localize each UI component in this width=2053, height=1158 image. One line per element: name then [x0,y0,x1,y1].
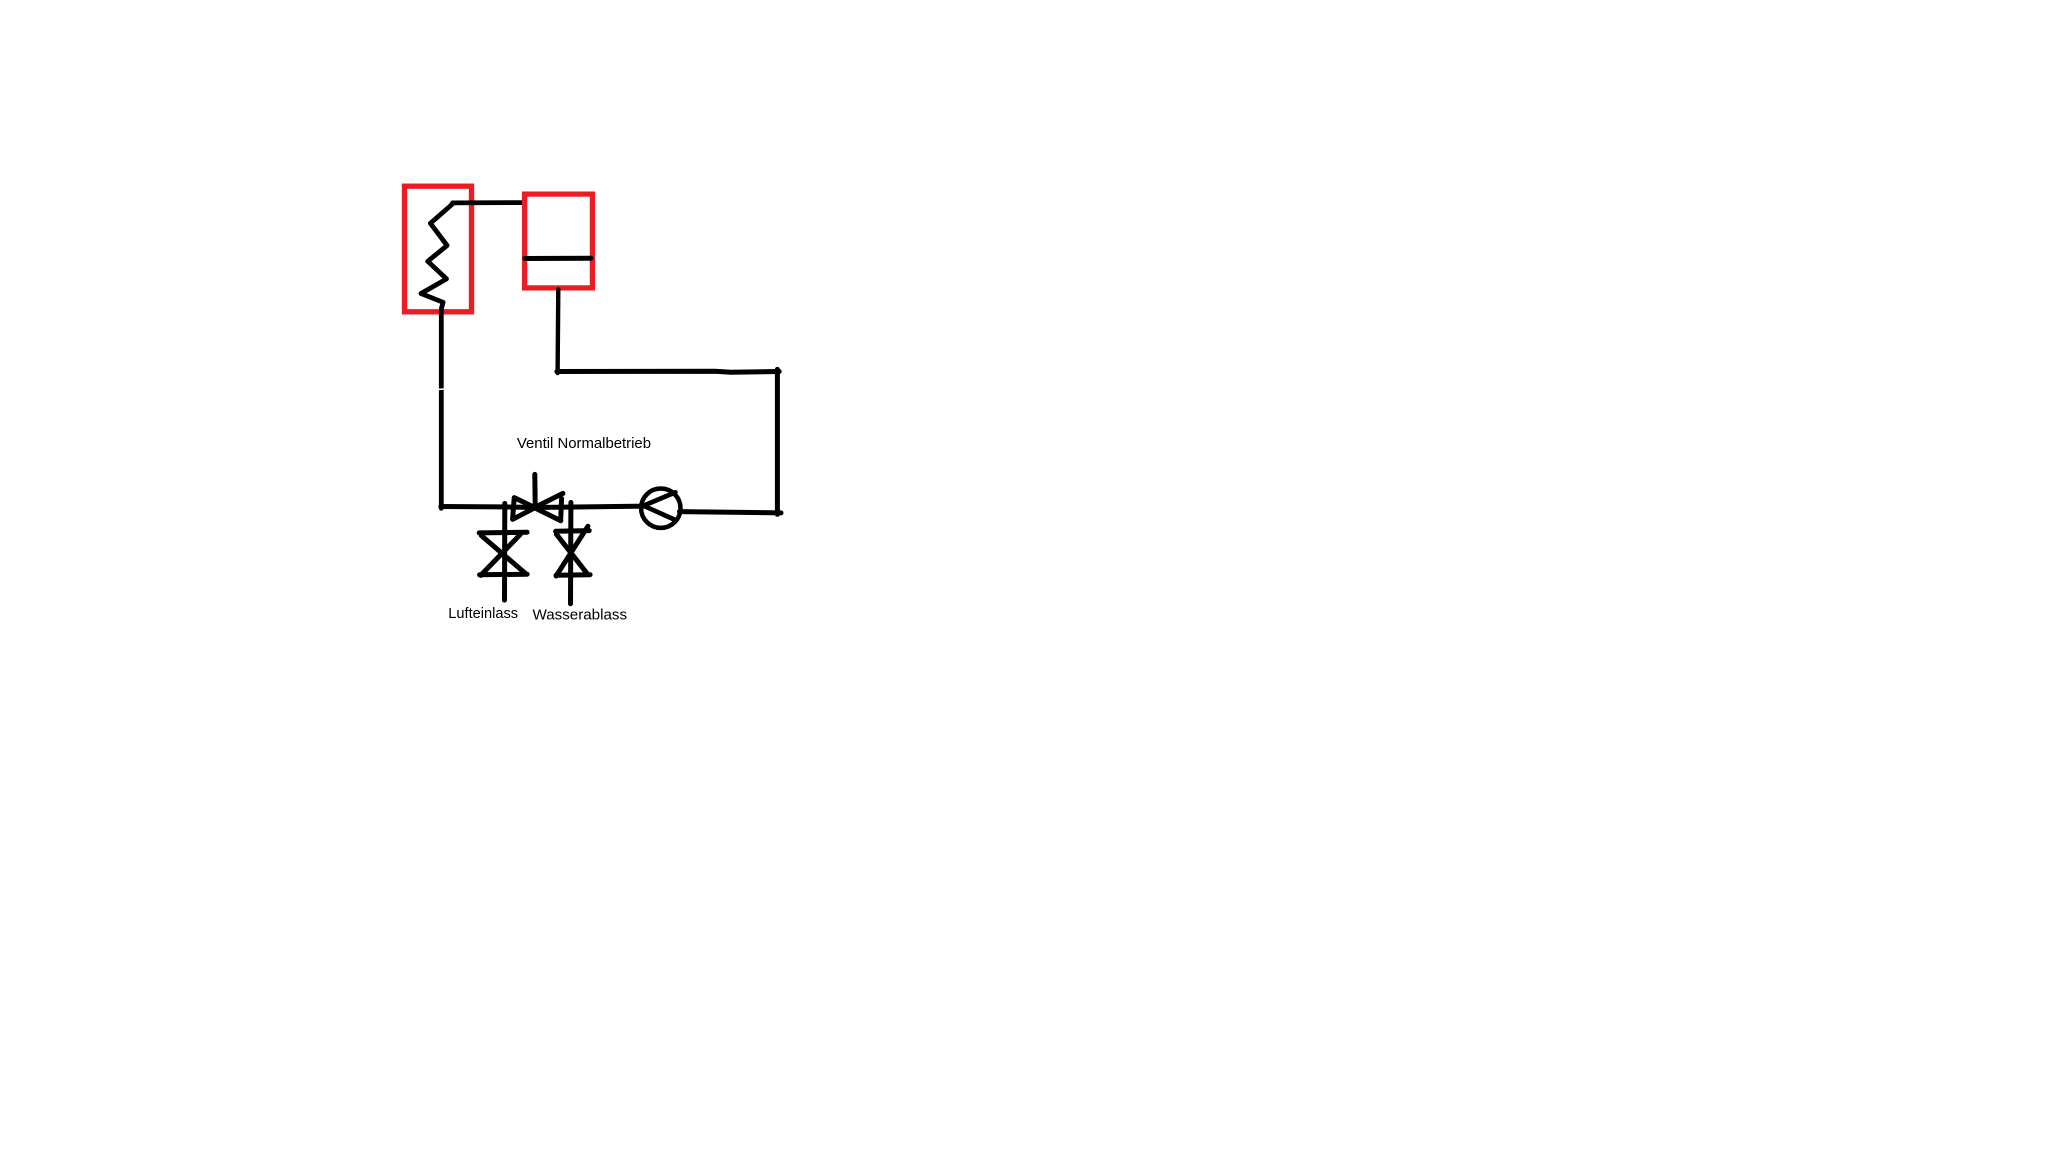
valve Lufteinlass (hourglass) [479,532,527,575]
heating element zigzag [421,203,454,508]
wire bottom right (pump to right riser) [680,512,782,513]
wire mid horizontal [557,371,779,372]
svg-text:Wasserablass: Wasserablass [533,606,628,623]
pump P1 triangle upper line [644,492,676,505]
tank box (red rectangle) [525,194,593,288]
wire bottom left (left riser through valve to pump) [441,506,643,507]
pump P1 circle [641,489,680,528]
wire right vertical [775,369,780,514]
valve V1 left triangle [513,498,535,520]
wire top (heater to tank) [453,200,522,205]
valve V1 stem [532,474,537,505]
branch wire right (to Wasserablass valve) [568,503,573,604]
valve Wasserablass (hourglass) [556,526,591,576]
pump P1 triangle lower line [644,506,675,520]
svg-text:Lufteinlass: Lufteinlass [448,606,518,622]
heater box (red rectangle, radiator) [405,186,472,312]
wire tank down [555,289,560,373]
branch wire left (to Lufteinlass valve) [502,504,507,601]
svg-text:Ventil Normalbetrieb: Ventil Normalbetrieb [517,436,651,452]
water level line in tank [525,256,591,261]
valve V1 right triangle [535,493,563,520]
wire notch artifact on left vertical [438,388,446,390]
